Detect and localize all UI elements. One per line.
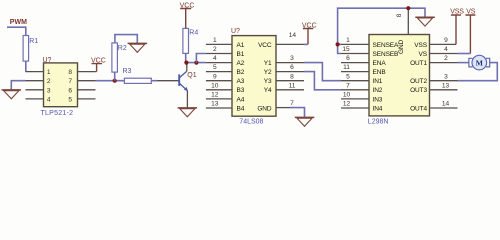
svg-text:12: 12	[343, 101, 351, 108]
svg-text:3: 3	[290, 55, 294, 62]
svg-text:B4: B4	[237, 105, 245, 112]
svg-text:B1: B1	[237, 51, 245, 58]
svg-text:R2: R2	[118, 45, 127, 52]
svg-text:U?: U?	[43, 57, 52, 64]
svg-text:4: 4	[444, 46, 448, 53]
wire SENSEA/SENSEB loop to top	[338, 8, 425, 53]
pin 3	[26, 89, 44, 91]
AND gate IC U2 body 74LS08	[232, 36, 276, 117]
pin 11 Y4	[276, 89, 304, 91]
wire R4 bottom to node	[185, 53, 187, 62]
svg-text:VSS: VSS	[414, 42, 427, 49]
svg-text:14: 14	[289, 32, 297, 39]
svg-text:A4: A4	[237, 96, 245, 103]
svg-text:10: 10	[211, 82, 219, 89]
pin 4 VS	[430, 53, 458, 55]
wire R3 to Q1 base	[151, 80, 157, 82]
wire R1 to U? pin1	[25, 61, 27, 72]
pin 8	[78, 71, 97, 73]
power VSS	[450, 9, 464, 45]
wire Y1 to IN1	[304, 63, 341, 81]
svg-text:8: 8	[290, 73, 294, 80]
wire GND7 to ground	[290, 108, 305, 117]
junction dot (GND pin tie)	[406, 6, 410, 10]
pin numbers U1	[47, 69, 72, 103]
svg-text:11: 11	[289, 82, 296, 89]
pin 4 A2	[206, 62, 232, 64]
svg-text:4: 4	[47, 96, 51, 103]
resistor R1	[23, 36, 29, 62]
svg-text:R4: R4	[189, 29, 198, 36]
svg-text:11: 11	[343, 64, 350, 71]
wire OUT1 to motor	[458, 62, 470, 64]
pin 6 Y2	[276, 71, 304, 73]
svg-text:1: 1	[47, 69, 51, 76]
svg-text:2: 2	[213, 46, 217, 53]
pin 1 A1	[206, 43, 232, 45]
pin numbers U3	[342, 37, 449, 108]
svg-text:3: 3	[444, 73, 448, 80]
svg-text:ENA: ENA	[373, 60, 387, 67]
pin 2	[26, 80, 44, 82]
svg-text:2: 2	[47, 78, 51, 85]
pin 4	[26, 98, 44, 100]
pin 9 VSS	[430, 43, 457, 45]
pin 6	[78, 89, 96, 91]
power VCC (74LS08 pin14)	[302, 23, 317, 45]
pin 8 Y3	[276, 80, 304, 82]
pin names U3	[373, 42, 400, 113]
svg-text:10: 10	[343, 92, 351, 99]
svg-text:5: 5	[346, 73, 350, 80]
junction dot (sense tie)	[336, 42, 340, 46]
svg-text:3: 3	[47, 87, 51, 94]
svg-text:GND: GND	[398, 39, 405, 54]
wire VS pin to stem	[458, 53, 471, 55]
svg-text:OUT1: OUT1	[410, 60, 427, 67]
transistor Q1	[157, 71, 197, 91]
wire SENSEA stub	[338, 43, 341, 45]
junction dot (branch to B1)	[194, 61, 198, 65]
svg-text:VS: VS	[419, 51, 428, 58]
wire PWM to R1	[7, 27, 26, 35]
pin 2 OUT1	[430, 62, 458, 64]
optocoupler U1 body	[44, 63, 78, 107]
pin 7	[78, 80, 96, 82]
motor M1	[469, 55, 490, 70]
pin 5	[78, 98, 96, 100]
wire Q1 emitter down	[186, 91, 188, 108]
wire collector node to A2	[186, 62, 206, 64]
svg-text:6: 6	[346, 55, 350, 62]
pin 13 OUT3	[430, 89, 458, 91]
wire Y2 to IN2	[304, 72, 341, 90]
pin 7 GND	[276, 107, 290, 109]
ground (R2 pull-down)	[128, 43, 148, 52]
pin names U2	[237, 42, 245, 113]
svg-text:IN4: IN4	[373, 105, 383, 112]
svg-text:8: 8	[68, 69, 72, 76]
svg-text:7: 7	[290, 100, 294, 107]
power VS	[465, 9, 475, 54]
wire pin14 to VCC stem	[304, 43, 308, 45]
svg-text:Y1: Y1	[264, 60, 272, 67]
pin 2 B1	[206, 53, 232, 55]
pin numbers U2	[211, 32, 296, 107]
resistor R3	[124, 78, 151, 83]
pin 15 SENSEB	[341, 53, 369, 55]
wire Q1 collector up	[186, 63, 188, 72]
svg-text:PWM: PWM	[10, 19, 27, 26]
wire branch to B1	[196, 54, 206, 63]
ground (74LS08 pin7)	[295, 117, 315, 126]
pin 14 VCC	[276, 43, 304, 45]
wire R2 top to ground loop	[115, 35, 137, 43]
ground (Q1 emitter)	[178, 108, 198, 117]
svg-text:SENSEB: SENSEB	[373, 51, 399, 58]
svg-text:SENSEA: SENSEA	[373, 42, 400, 49]
svg-text:6: 6	[290, 64, 294, 71]
pin 5 IN1	[341, 80, 369, 82]
pin 9 A3	[206, 80, 232, 82]
resistor R4	[183, 28, 189, 53]
wire OUT2 to motor right	[458, 63, 498, 81]
svg-text:A3: A3	[237, 78, 245, 85]
svg-text:Y3: Y3	[264, 78, 272, 85]
svg-text:2: 2	[444, 55, 448, 62]
svg-text:5: 5	[213, 64, 217, 71]
pin 1	[26, 71, 44, 73]
pin 3 OUT2	[430, 80, 458, 82]
svg-text:GND: GND	[257, 105, 272, 112]
svg-text:ENB: ENB	[373, 69, 386, 76]
pin 13 B4	[206, 107, 232, 109]
svg-text:Q1: Q1	[187, 72, 196, 79]
pin 3 Y1	[276, 62, 304, 64]
svg-text:R1: R1	[29, 38, 38, 45]
svg-text:Y2: Y2	[264, 69, 272, 76]
svg-text:M: M	[476, 59, 483, 68]
svg-text:L298N: L298N	[368, 118, 389, 125]
ground (opto input)	[2, 90, 22, 99]
pin 5 B2	[206, 71, 232, 73]
pin 10 B3	[206, 89, 232, 91]
power VCC (opto collector)	[91, 58, 106, 72]
svg-text:R3: R3	[123, 68, 132, 75]
pin 11 ENB	[341, 71, 369, 73]
svg-text:TLP521-2: TLP521-2	[41, 110, 74, 117]
svg-text:7: 7	[346, 82, 350, 89]
wire R2 bottom stem	[114, 72, 116, 81]
svg-text:OUT3: OUT3	[410, 87, 427, 94]
svg-text:VCC: VCC	[258, 42, 272, 49]
svg-text:OUT2: OUT2	[410, 78, 427, 85]
pin 8 GND top	[407, 8, 409, 34]
svg-text:4: 4	[213, 55, 217, 62]
svg-text:14: 14	[442, 101, 450, 108]
svg-text:Y4: Y4	[264, 87, 272, 94]
svg-text:13: 13	[211, 101, 219, 108]
svg-text:12: 12	[211, 92, 219, 99]
svg-text:15: 15	[342, 46, 350, 53]
pin 7 IN2	[341, 89, 369, 91]
svg-text:IN1: IN1	[373, 78, 383, 85]
svg-text:9: 9	[213, 73, 217, 80]
svg-text:IN2: IN2	[373, 87, 383, 94]
svg-text:74LS08: 74LS08	[239, 119, 263, 126]
junction dot (R4/collector)	[184, 61, 188, 65]
pin 12 A4	[206, 98, 232, 100]
svg-text:A1: A1	[237, 42, 245, 49]
pin 14 OUT4	[430, 107, 458, 109]
power VCC (R4 top)	[180, 2, 195, 28]
svg-text:B3: B3	[237, 87, 245, 94]
svg-text:13: 13	[442, 82, 450, 89]
pin 6 ENA	[341, 62, 369, 64]
svg-text:7: 7	[68, 78, 72, 85]
pin 10 IN3	[341, 98, 369, 100]
resistor R2	[112, 43, 118, 72]
svg-text:OUT4: OUT4	[410, 105, 427, 112]
junction dot (R2/pin7/R3)	[113, 79, 117, 83]
svg-text:B2: B2	[237, 69, 245, 76]
svg-text:9: 9	[444, 37, 448, 44]
wire U1 pin7 to R3	[96, 80, 125, 82]
svg-text:U?: U?	[231, 28, 240, 35]
driver IC U3 body L298N	[369, 35, 430, 116]
ground (top right)	[415, 17, 435, 26]
svg-text:A2: A2	[237, 60, 245, 67]
wire U1 pin2 to ground	[11, 81, 25, 90]
svg-text:1: 1	[213, 37, 217, 44]
svg-text:1: 1	[346, 37, 350, 44]
svg-text:IN3: IN3	[373, 96, 383, 103]
svg-text:6: 6	[68, 87, 72, 94]
pin 12 IN4	[341, 107, 369, 109]
svg-text:8: 8	[396, 13, 403, 17]
pin 1 SENSEA	[341, 43, 369, 45]
svg-text:5: 5	[68, 96, 72, 103]
